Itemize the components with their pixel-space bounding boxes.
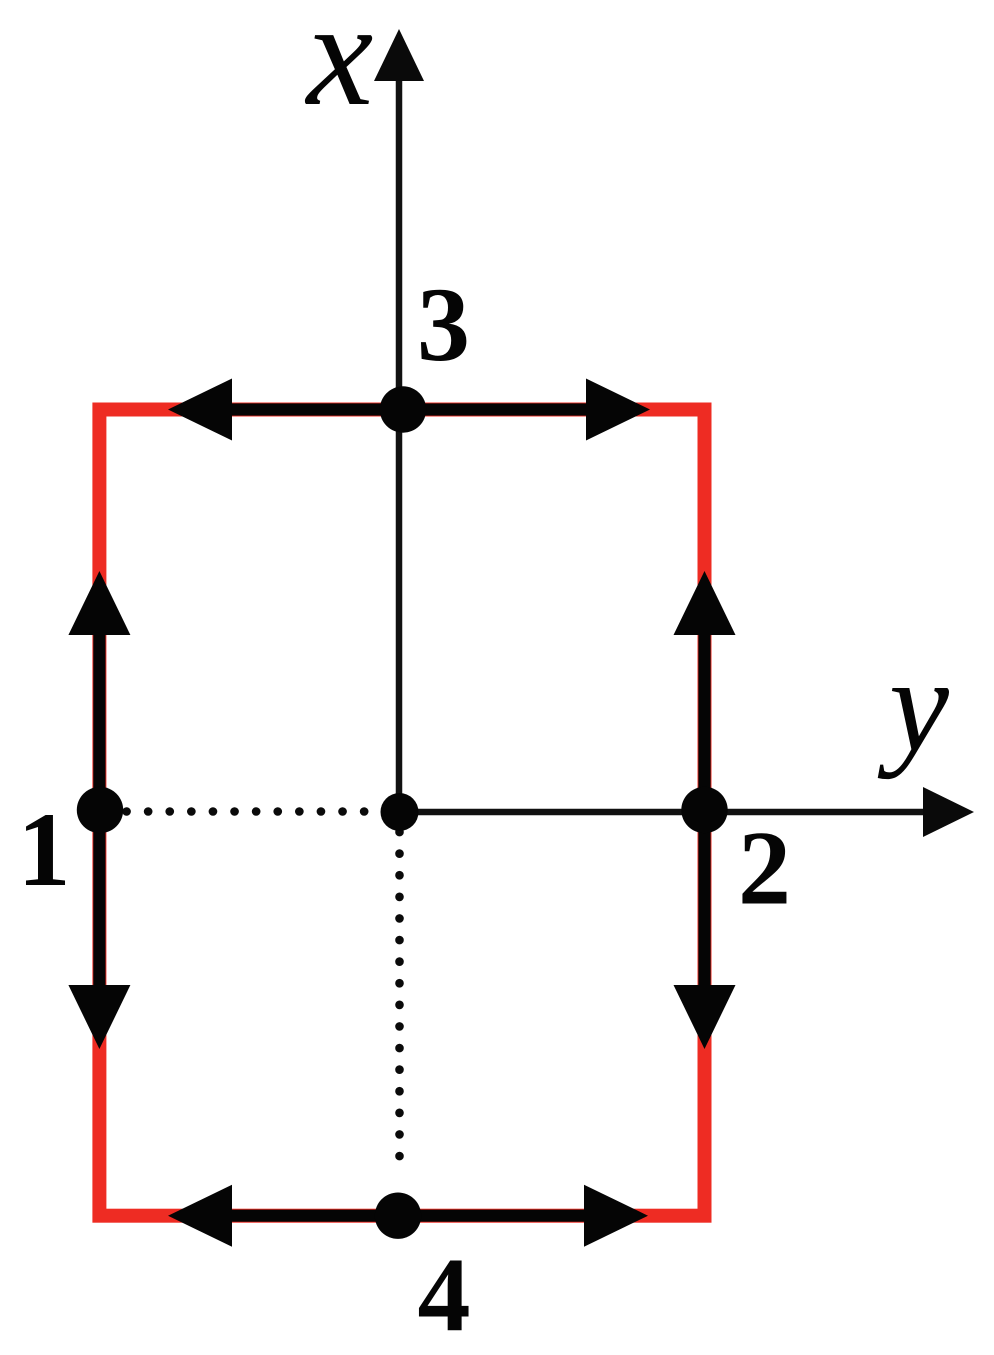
svg-text:4: 4 [418,1236,471,1353]
svg-text:2: 2 [738,810,791,927]
svg-text:1: 1 [18,791,71,908]
svg-text:x: x [305,0,374,137]
svg-text:3: 3 [417,266,470,383]
